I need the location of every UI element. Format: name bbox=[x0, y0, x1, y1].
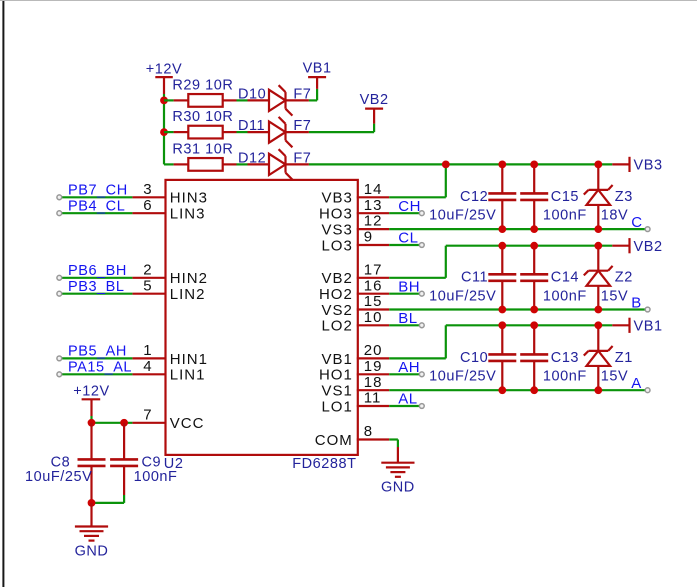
svg-text:1: 1 bbox=[143, 342, 152, 359]
svg-text:C: C bbox=[631, 214, 642, 231]
wire R29 to diode bbox=[237, 99, 248, 101]
zener diode Z2 15V bbox=[597, 246, 599, 271]
svg-text:10uF/25V: 10uF/25V bbox=[429, 289, 496, 305]
power symbol +12V (VCC) bbox=[82, 398, 101, 400]
junction dots rail 3 bbox=[498, 161, 506, 169]
svg-text:12: 12 bbox=[364, 213, 383, 230]
zener diode Z1 15V bbox=[597, 325, 599, 351]
svg-text:VS3: VS3 bbox=[321, 222, 352, 239]
svg-text:20: 20 bbox=[364, 342, 383, 359]
svg-text:10uF/25V: 10uF/25V bbox=[429, 208, 496, 224]
node AL open end bbox=[419, 404, 424, 409]
diode D10 F7 bbox=[248, 99, 270, 101]
svg-text:HIN2: HIN2 bbox=[170, 270, 208, 287]
wire VB2 rail bbox=[446, 245, 613, 247]
junction dots VS2 bbox=[498, 306, 506, 314]
svg-text:PB7_CH: PB7_CH bbox=[68, 183, 128, 199]
svg-text:VCC: VCC bbox=[170, 415, 205, 432]
svg-text:HIN1: HIN1 bbox=[170, 351, 208, 368]
wire R30 to diode bbox=[237, 131, 248, 133]
svg-text:VB1: VB1 bbox=[321, 351, 352, 368]
wire VB1 rail bbox=[446, 324, 613, 326]
capacitor C13 100nF bbox=[533, 325, 535, 354]
wire input PB3_BL bbox=[60, 293, 132, 295]
junction dots VS1 bbox=[498, 386, 506, 394]
junction rail/pin14 bbox=[442, 161, 450, 169]
pin 14 VB3 (right) bbox=[357, 196, 389, 198]
svg-text:2: 2 bbox=[143, 261, 152, 278]
pin 6 LIN3 (left) bbox=[132, 212, 166, 214]
resistor R29 10R bbox=[174, 99, 189, 101]
pin 4 LIN1 (left) bbox=[132, 373, 166, 375]
svg-text:VB2: VB2 bbox=[321, 270, 352, 287]
pin 16 HO2 (right) bbox=[357, 293, 389, 295]
junction C9/VCC bbox=[120, 419, 128, 427]
junction dots rail 2 bbox=[498, 242, 506, 250]
svg-text:6: 6 bbox=[143, 197, 152, 214]
wire to resistor R29 bbox=[164, 99, 174, 101]
power symbol VB1 (top) bbox=[316, 77, 318, 89]
wire vertical bus R29->R31 bbox=[163, 100, 165, 164]
node PB4_CL open end bbox=[57, 211, 62, 216]
junction C8/GND bbox=[88, 499, 96, 507]
pin 9 LO3 (right) bbox=[357, 244, 389, 246]
wire input PB7_CH bbox=[60, 196, 132, 198]
wire pin 17 to rail bbox=[389, 277, 446, 279]
wire pin 14 to rail bbox=[389, 196, 446, 198]
svg-text:BH: BH bbox=[398, 278, 420, 295]
node phase B open end bbox=[645, 307, 650, 312]
pin 19 HO1 (right) bbox=[357, 373, 389, 375]
svg-text:PB6_BH: PB6_BH bbox=[68, 263, 127, 279]
svg-text:100nF: 100nF bbox=[543, 208, 587, 224]
svg-text:R29 10R: R29 10R bbox=[172, 78, 233, 94]
pin 15 VS2 (right) bbox=[357, 308, 389, 310]
svg-text:8: 8 bbox=[364, 423, 373, 440]
junction dots VS3 bbox=[498, 225, 506, 233]
svg-text:14: 14 bbox=[364, 181, 383, 198]
svg-text:16: 16 bbox=[364, 277, 383, 294]
node PB7_CH open end bbox=[57, 195, 62, 200]
node PA15_AL open end bbox=[57, 372, 62, 377]
wire input PB5_AH bbox=[60, 357, 132, 359]
svg-text:D11: D11 bbox=[238, 118, 265, 134]
svg-text:GND: GND bbox=[381, 480, 415, 496]
wire input PB6_BH bbox=[60, 277, 132, 279]
svg-text:Z1: Z1 bbox=[615, 350, 633, 366]
junction C8/VCC bbox=[88, 419, 96, 427]
svg-text:HO1: HO1 bbox=[319, 367, 353, 384]
wire pin 20 to rail bbox=[389, 357, 446, 359]
wire D11 cathode to VB2 bbox=[309, 131, 374, 133]
svg-text:18: 18 bbox=[364, 374, 383, 391]
resistor R31 10R bbox=[174, 163, 189, 165]
svg-text:HO2: HO2 bbox=[319, 286, 353, 303]
wire input PA15_AL bbox=[60, 373, 132, 375]
svg-text:7: 7 bbox=[143, 406, 152, 423]
svg-text:C12: C12 bbox=[460, 189, 488, 205]
diode D11 F7 bbox=[248, 131, 270, 133]
pin 8 COM (right) bbox=[357, 438, 389, 440]
svg-text:13: 13 bbox=[364, 197, 383, 214]
svg-text:LO3: LO3 bbox=[321, 237, 352, 254]
node CL open end bbox=[419, 243, 424, 248]
wire output CH bbox=[389, 212, 421, 214]
node PB3_BL open end bbox=[57, 291, 62, 296]
capacitor C15 100nF bbox=[533, 164, 535, 193]
svg-text:15V: 15V bbox=[601, 369, 628, 385]
pin 11 LO1 (right) bbox=[357, 405, 389, 407]
svg-text:C11: C11 bbox=[461, 270, 488, 286]
junction node at R30 row bbox=[160, 128, 168, 136]
capacitor C8 10uF/25V bbox=[90, 423, 92, 460]
op-amp/driver IC U2 FD6288T body bbox=[166, 180, 358, 455]
pin 2 HIN2 (left) bbox=[132, 277, 166, 279]
node PB6_BH open end bbox=[57, 275, 62, 280]
svg-text:VS1: VS1 bbox=[321, 383, 352, 400]
svg-text:+12V: +12V bbox=[73, 384, 109, 400]
sheet border top edge bbox=[0, 0, 697, 2]
svg-text:HO3: HO3 bbox=[319, 206, 353, 223]
wire output AL bbox=[389, 405, 421, 407]
wire C9 bottom to C8 bottom bbox=[123, 495, 125, 503]
wire COM to ground bbox=[389, 438, 398, 440]
svg-text:LO2: LO2 bbox=[321, 318, 352, 335]
svg-text:19: 19 bbox=[364, 358, 383, 375]
pin 17 VB2 (right) bbox=[357, 277, 389, 279]
svg-text:100nF: 100nF bbox=[543, 289, 587, 305]
capacitor C10 10uF/25V bbox=[501, 325, 503, 354]
pin 1 HIN1 (left) bbox=[132, 357, 166, 359]
svg-text:LIN1: LIN1 bbox=[170, 367, 206, 384]
svg-text:B: B bbox=[631, 294, 642, 311]
svg-text:CL: CL bbox=[398, 230, 418, 247]
node phase A open end bbox=[645, 388, 650, 393]
pin 3 HIN3 (left) bbox=[132, 196, 166, 198]
svg-text:100nF: 100nF bbox=[134, 469, 178, 485]
sheet border left edge bbox=[2, 0, 4, 587]
svg-text:18V: 18V bbox=[601, 208, 628, 224]
svg-text:GND: GND bbox=[75, 543, 109, 559]
power symbol VB1 (right) bbox=[612, 324, 629, 326]
node AH open end bbox=[419, 372, 424, 377]
svg-text:F7: F7 bbox=[293, 86, 311, 102]
svg-text:PB4_CL: PB4_CL bbox=[68, 198, 125, 214]
power symbol VB3 (right) bbox=[612, 163, 629, 165]
wire VS2 run bbox=[389, 308, 645, 310]
wire R31 to diode bbox=[237, 163, 248, 165]
svg-text:4: 4 bbox=[143, 358, 152, 375]
svg-text:C15: C15 bbox=[551, 189, 579, 205]
svg-text:C13: C13 bbox=[551, 350, 579, 366]
power symbol VB2 (top) bbox=[373, 109, 375, 124]
svg-text:PB5_AH: PB5_AH bbox=[68, 344, 127, 360]
ground symbol (COM) bbox=[397, 447, 399, 463]
svg-text:A: A bbox=[631, 375, 642, 392]
svg-text:Z2: Z2 bbox=[615, 270, 633, 286]
svg-text:VB3: VB3 bbox=[634, 158, 663, 174]
node phase C open end bbox=[645, 227, 650, 232]
svg-text:COM: COM bbox=[315, 432, 353, 449]
capacitor C14 100nF bbox=[533, 246, 535, 275]
svg-text:11: 11 bbox=[364, 390, 382, 407]
capacitor C9 100nF bbox=[123, 423, 125, 460]
svg-text:15V: 15V bbox=[601, 289, 628, 305]
svg-text:VB2: VB2 bbox=[634, 239, 663, 255]
pin 20 VB1 (right) bbox=[357, 357, 389, 359]
node CH open end bbox=[419, 211, 424, 216]
power symbol +12V (top) bbox=[155, 76, 173, 78]
svg-text:D12: D12 bbox=[238, 150, 266, 166]
svg-text:PB3_BL: PB3_BL bbox=[68, 279, 125, 295]
ground symbol (VCC filter) bbox=[90, 503, 92, 527]
wire to resistor R30 bbox=[164, 131, 174, 133]
wire +12V stub to R29 row bbox=[163, 94, 165, 100]
wire VS3 run bbox=[389, 228, 645, 230]
svg-text:HIN3: HIN3 bbox=[170, 190, 208, 207]
power symbol VB2 (right) bbox=[612, 245, 629, 247]
svg-text:VB3: VB3 bbox=[321, 190, 352, 207]
node BH open end bbox=[419, 291, 424, 296]
svg-text:10uF/25V: 10uF/25V bbox=[25, 469, 92, 485]
svg-text:C14: C14 bbox=[551, 270, 579, 286]
wire D10 cathode to VB1 bbox=[309, 99, 317, 101]
svg-text:C10: C10 bbox=[460, 350, 488, 366]
svg-text:VB1: VB1 bbox=[634, 319, 663, 335]
svg-text:+12V: +12V bbox=[146, 61, 182, 77]
pin 18 VS1 (right) bbox=[357, 389, 389, 391]
svg-text:10: 10 bbox=[364, 309, 383, 326]
resistor R30 10R bbox=[174, 131, 189, 133]
wire +12V to VCC bbox=[90, 416, 92, 423]
svg-text:FD6288T: FD6288T bbox=[292, 456, 356, 472]
pin 7 VCC (left) bbox=[132, 422, 166, 424]
wire output AH bbox=[389, 373, 421, 375]
wire output BL bbox=[389, 324, 421, 326]
wire VB3 rail bbox=[309, 163, 612, 165]
capacitor C12 10uF/25V bbox=[501, 164, 503, 193]
wire to resistor R31 bbox=[164, 163, 174, 165]
svg-text:F7: F7 bbox=[293, 150, 311, 166]
svg-text:10uF/25V: 10uF/25V bbox=[429, 369, 496, 385]
svg-text:VB2: VB2 bbox=[360, 92, 389, 108]
svg-text:CH: CH bbox=[398, 198, 421, 215]
capacitor C11 10uF/25V bbox=[501, 246, 503, 275]
zener diode Z3 18V bbox=[597, 164, 599, 189]
svg-text:R31 10R: R31 10R bbox=[172, 142, 233, 158]
pin 12 VS3 (right) bbox=[357, 228, 389, 230]
svg-text:VB1: VB1 bbox=[303, 61, 332, 77]
wire input PB4_CL bbox=[60, 212, 132, 214]
svg-text:LO1: LO1 bbox=[321, 398, 352, 415]
svg-text:AH: AH bbox=[398, 359, 420, 376]
svg-text:R30 10R: R30 10R bbox=[172, 109, 233, 125]
junction dots rail 1 bbox=[498, 321, 506, 329]
svg-text:15: 15 bbox=[364, 293, 383, 310]
wire output CL bbox=[389, 244, 421, 246]
svg-text:Z3: Z3 bbox=[615, 189, 633, 205]
svg-text:LIN3: LIN3 bbox=[170, 206, 206, 223]
junction node at R29 row bbox=[160, 97, 168, 105]
svg-text:3: 3 bbox=[143, 181, 152, 198]
svg-text:5: 5 bbox=[143, 277, 152, 294]
svg-text:17: 17 bbox=[364, 261, 383, 278]
svg-text:PA15_AL: PA15_AL bbox=[68, 360, 132, 376]
svg-text:100nF: 100nF bbox=[543, 369, 587, 385]
svg-text:LIN2: LIN2 bbox=[170, 286, 206, 303]
wire VS1 run bbox=[389, 389, 645, 391]
diode D12 F7 bbox=[248, 163, 270, 165]
pin 5 LIN2 (left) bbox=[132, 293, 166, 295]
svg-text:AL: AL bbox=[398, 391, 417, 408]
node PB5_AH open end bbox=[57, 356, 62, 361]
pin 13 HO3 (right) bbox=[357, 212, 389, 214]
svg-text:9: 9 bbox=[364, 229, 373, 246]
svg-text:BL: BL bbox=[398, 310, 417, 327]
svg-text:VS2: VS2 bbox=[321, 302, 352, 319]
svg-text:D10: D10 bbox=[238, 86, 266, 102]
wire output BH bbox=[389, 293, 421, 295]
node BL open end bbox=[419, 323, 424, 328]
pin 10 LO2 (right) bbox=[357, 324, 389, 326]
svg-text:F7: F7 bbox=[293, 118, 311, 134]
